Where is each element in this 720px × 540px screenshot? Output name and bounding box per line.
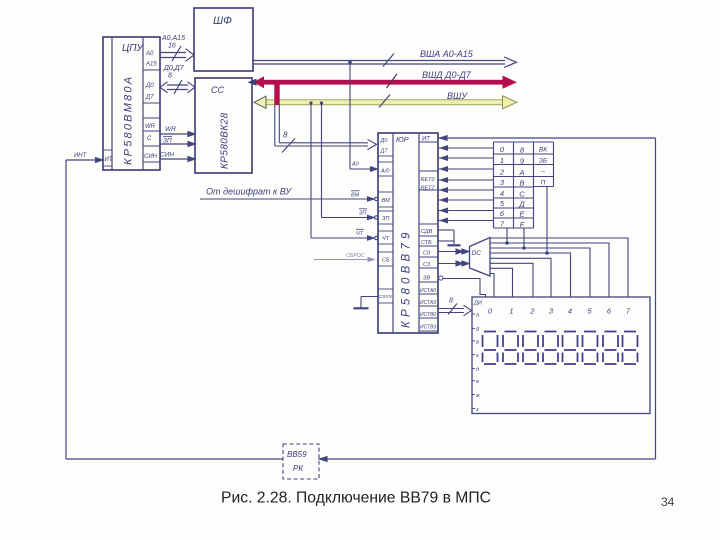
7-segment indicator digit 2 <box>523 332 538 365</box>
svg-text:СДВ: СДВ <box>421 229 433 235</box>
svg-text:ВК: ВК <box>539 147 548 154</box>
svg-text:WR: WR <box>165 126 176 133</box>
svg-text:Д0,Д7: Д0,Д7 <box>163 65 185 72</box>
svg-text:ЧТ: ЧТ <box>382 236 390 242</box>
svg-text:3: 3 <box>549 307 554 316</box>
svg-text:F: F <box>520 220 525 229</box>
wires scan lines U2 С0,С3 to DC <box>438 249 470 266</box>
svg-text:ИСТВ3: ИСТВ3 <box>420 325 436 331</box>
keyboard matrix <box>494 142 554 228</box>
svg-text:ЗБ: ЗБ <box>539 158 547 165</box>
display unit block <box>472 297 650 414</box>
svg-text:ИСТА0: ИСТА0 <box>420 288 436 294</box>
svg-text:5: 5 <box>500 199 505 208</box>
svg-text:0: 0 <box>488 307 493 316</box>
svg-text:2: 2 <box>499 168 505 177</box>
svg-text:П: П <box>541 180 546 187</box>
svg-text:Е: Е <box>519 210 525 219</box>
svg-text:ВМ: ВМ <box>382 198 391 204</box>
wire CPU address to ШФ <box>160 46 194 61</box>
svg-text:8: 8 <box>520 146 525 155</box>
svg-text:А0: А0 <box>145 51 154 57</box>
svg-text:В: В <box>519 179 524 188</box>
svg-text:ЦПУ: ЦПУ <box>122 43 145 54</box>
svg-text:Д0: Д0 <box>380 138 389 144</box>
wire ЗП CPU to СС <box>160 137 195 147</box>
DC output scan wires to display digits (nested) <box>490 238 628 297</box>
keyboard/display controller U2 КР580ВВ79 <box>378 133 438 333</box>
svg-text:ЗВ: ЗВ <box>423 276 430 282</box>
svg-text:Д7: Д7 <box>380 149 389 155</box>
svg-text:А0,А15: А0,А15 <box>161 35 185 42</box>
svg-text:4: 4 <box>500 189 504 198</box>
svg-text:СБ: СБ <box>382 258 390 264</box>
svg-text:1: 1 <box>509 307 513 316</box>
7-segment indicator digit 1 <box>503 332 518 365</box>
wire СИН CPU to СС <box>160 157 195 162</box>
svg-text:КР580ВВ79: КР580ВВ79 <box>401 228 413 328</box>
svg-text:0: 0 <box>500 145 505 154</box>
svg-text:ВМ: ВМ <box>351 193 360 199</box>
svg-text:RET0: RET0 <box>421 177 436 183</box>
svg-text:8: 8 <box>168 73 172 80</box>
svg-text:А: А <box>518 168 524 177</box>
wire 8-bit data drop from ВШД to U2 Д0/Д7 <box>275 105 377 153</box>
svg-text:ДИ: ДИ <box>473 301 482 307</box>
wire crimson drop ВШД to data subbus <box>274 82 279 105</box>
wire WR CPU to СС <box>160 132 195 137</box>
svg-text:в: в <box>476 339 479 345</box>
svg-text:ИНТ: ИНТ <box>74 153 88 159</box>
svg-text:Д: Д <box>518 200 525 209</box>
svg-text:ЗП: ЗП <box>163 138 172 145</box>
wire ЧТ tap from ВШУ to U2 <box>309 101 378 240</box>
svg-text:ВШУ: ВШУ <box>447 91 468 101</box>
svg-text:А/0: А/0 <box>380 169 390 175</box>
wire CPU data to СС (bidirectional) <box>160 80 195 94</box>
svg-text:ВШД Д0-Д7: ВШД Д0-Д7 <box>422 70 472 80</box>
svg-text:16: 16 <box>168 43 176 50</box>
wire ЗП tap from ВШУ to U2 <box>320 101 378 219</box>
svg-text:ШФ: ШФ <box>213 15 232 27</box>
svg-text:RET7: RET7 <box>421 186 436 192</box>
svg-text:С: С <box>519 190 525 199</box>
svg-text:ЗП: ЗП <box>382 216 389 222</box>
svg-text:КР580ВК28: КР580ВК28 <box>220 112 231 169</box>
svg-text:РК: РК <box>293 464 304 473</box>
wires matrix columns to scan lines <box>505 187 549 255</box>
svg-text:СТБ: СТБ <box>421 240 432 246</box>
wire СБРОС to U2 СБ <box>314 257 374 261</box>
svg-text:ИСТВ0: ИСТВ0 <box>420 312 436 318</box>
svg-text:6: 6 <box>607 307 612 316</box>
svg-text:5: 5 <box>587 307 592 316</box>
svg-text:2: 2 <box>529 307 535 316</box>
wire chip select from decoder to U2 ВМ <box>200 191 378 201</box>
svg-text:1: 1 <box>500 156 504 165</box>
svg-text:Рис. 2.28. Подключение ВВ79 в: Рис. 2.28. Подключение ВВ79 в МПС <box>221 490 491 507</box>
svg-text:От дешифрат к ВУ: От дешифрат к ВУ <box>206 187 292 197</box>
svg-text:4: 4 <box>568 307 572 316</box>
svg-text:8: 8 <box>283 131 288 140</box>
svg-text:WR: WR <box>145 124 156 130</box>
svg-text:СС: СС <box>211 85 224 95</box>
return wires RET0-RET7 from matrix to U2 <box>438 146 494 223</box>
svg-text:7: 7 <box>500 220 505 229</box>
svg-text:8: 8 <box>449 298 453 305</box>
wire ЗВ (blank) from U2 to display <box>439 276 486 297</box>
ground for U2 pins СДВ/СТБ <box>438 230 461 245</box>
7-segment indicator digit 7 <box>623 332 638 365</box>
svg-text:СИН: СИН <box>160 152 174 159</box>
svg-text:е: е <box>476 379 479 385</box>
svg-text:г: г <box>476 353 479 359</box>
svg-text:СБРОС: СБРОС <box>346 253 365 259</box>
svg-text:6: 6 <box>500 209 505 218</box>
CPU U1 КР580ВМ80А <box>103 37 160 170</box>
svg-text:СИН: СИН <box>144 154 158 160</box>
svg-text:DC: DC <box>472 250 482 257</box>
bus buffer ШФ <box>194 8 253 71</box>
ground for U2 clock pin С/SYN <box>354 297 379 309</box>
svg-text:С/SYN: С/SYN <box>379 294 393 299</box>
data bus ВШД D0-D7 (crimson) <box>248 74 518 89</box>
svg-text:ВВ59: ВВ59 <box>287 450 307 459</box>
svg-text:ЮР: ЮР <box>396 135 409 144</box>
svg-text:А0: А0 <box>351 162 360 168</box>
svg-text:а: а <box>476 313 479 319</box>
svg-text:ЧТ: ЧТ <box>356 231 364 237</box>
svg-text:34: 34 <box>661 495 675 509</box>
svg-text:з: з <box>475 407 479 413</box>
system controller КР580ВК28 <box>195 78 252 173</box>
7-segment indicator digit 4 <box>563 332 578 365</box>
svg-text:А15: А15 <box>145 62 157 68</box>
svg-text:3: 3 <box>500 178 505 187</box>
svg-text:–: – <box>540 169 545 176</box>
svg-text:ИТ: ИТ <box>105 157 114 163</box>
control bus ВШУ <box>254 95 517 109</box>
7-segment indicator digit 3 <box>543 332 558 365</box>
svg-text:Д7: Д7 <box>145 95 154 101</box>
wire ИНТ from U2 to interrupt controller and CPU <box>66 136 656 462</box>
7-segment indicator digit 5 <box>583 332 598 365</box>
svg-text:б: б <box>476 327 480 333</box>
svg-text:С3: С3 <box>423 262 431 268</box>
7-segment indicator digit 6 <box>603 332 618 365</box>
wire segment bus 8 from U2 ИСТ outputs to display <box>438 304 472 316</box>
svg-text:С: С <box>147 136 152 142</box>
svg-text:ж: ж <box>475 393 480 399</box>
svg-text:ИСТА3: ИСТА3 <box>420 300 436 306</box>
interrupt controller ВВ59 (dashed) <box>283 444 319 479</box>
svg-text:ЗП: ЗП <box>359 211 366 217</box>
svg-text:С0: С0 <box>423 251 431 257</box>
svg-text:ИТ: ИТ <box>422 137 431 143</box>
svg-text:ВША А0-А15: ВША А0-А15 <box>420 49 474 59</box>
svg-text:КР580ВМ80А: КР580ВМ80А <box>123 75 135 165</box>
svg-text:7: 7 <box>626 307 631 316</box>
7-segment indicator digit 0 <box>483 332 498 365</box>
svg-text:Д0: Д0 <box>145 83 154 89</box>
decoder DC <box>470 238 491 277</box>
address bus ВША А0-А15 <box>253 54 517 68</box>
wire A0 tap from ВША to U2 pin А/0 <box>348 61 377 172</box>
svg-text:д: д <box>476 367 479 373</box>
